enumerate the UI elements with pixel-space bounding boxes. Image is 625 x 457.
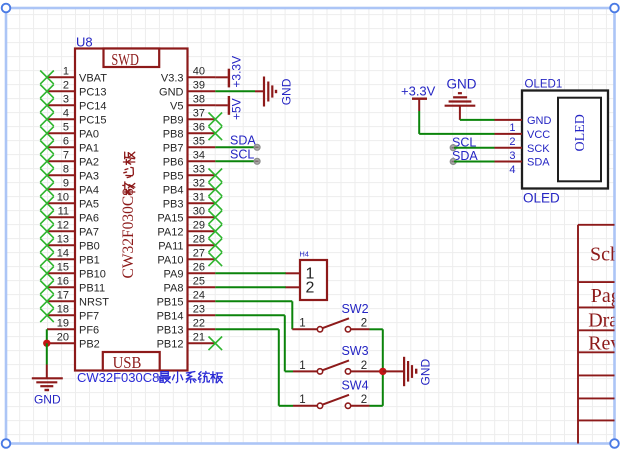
svg-text:7: 7 bbox=[63, 150, 69, 162]
svg-text:PB5: PB5 bbox=[163, 170, 184, 182]
svg-text:4: 4 bbox=[63, 108, 69, 120]
svg-text:CW32F030C8: CW32F030C8 bbox=[120, 188, 137, 279]
U8 pin 9 (PA4) bbox=[40, 178, 99, 197]
wire U8 pin25 PA8 to H4 pin2 bbox=[215, 286, 286, 288]
U8 pin 3 (PC14) bbox=[40, 94, 106, 113]
U8 pin 18 (PF7) bbox=[40, 304, 99, 323]
OLED1 pin 1 (GND) bbox=[495, 115, 552, 134]
svg-text:PB12: PB12 bbox=[157, 338, 184, 350]
svg-text:SDA: SDA bbox=[230, 134, 256, 148]
OLED1 pin 2 (VCC) bbox=[495, 129, 551, 148]
svg-text:PB14: PB14 bbox=[157, 310, 184, 322]
svg-text:GND: GND bbox=[447, 76, 477, 91]
switch SW4 bbox=[293, 379, 370, 409]
U8 pin 13 (PB0) bbox=[40, 234, 100, 253]
svg-text:PA7: PA7 bbox=[79, 226, 99, 238]
U8 vertical name CW32F030C8核心板 bbox=[120, 188, 137, 279]
U8 pin 34 (PB6) bbox=[163, 150, 216, 169]
svg-text:GND: GND bbox=[418, 359, 432, 386]
U8 pin 28 (PA11) bbox=[158, 234, 222, 253]
svg-text:PB11: PB11 bbox=[79, 282, 105, 294]
U8 pin 4 (PC15) bbox=[40, 108, 106, 127]
svg-text:14: 14 bbox=[57, 248, 69, 260]
svg-text:19: 19 bbox=[57, 318, 69, 330]
U8 pin 30 (PA15) bbox=[157, 206, 222, 225]
svg-text:1: 1 bbox=[63, 66, 69, 78]
svg-text:4: 4 bbox=[509, 164, 515, 176]
svg-text:5: 5 bbox=[63, 122, 69, 134]
wire +3.3V to OLED pin2 bbox=[419, 111, 494, 134]
U8 pin 16 (PB11) bbox=[40, 276, 105, 295]
svg-text:2: 2 bbox=[306, 279, 315, 296]
ground GND bottom left bbox=[32, 365, 63, 407]
svg-text:8: 8 bbox=[63, 164, 69, 176]
svg-text:40: 40 bbox=[193, 66, 205, 78]
U8 pin 39 (GND) bbox=[159, 80, 215, 99]
ground GND above OLED bbox=[445, 76, 477, 120]
U8 pin 17 (NRST) bbox=[40, 290, 109, 309]
svg-text:2: 2 bbox=[63, 80, 69, 92]
svg-text:PC13: PC13 bbox=[79, 86, 107, 98]
connector H4 bbox=[286, 249, 327, 300]
wire U8 pin26 PA9 to H4 pin1 bbox=[215, 272, 286, 274]
label CW32F030C8最小系统板 bbox=[77, 370, 222, 385]
svg-text:OLED: OLED bbox=[523, 190, 560, 205]
svg-text:39: 39 bbox=[193, 80, 205, 92]
U8 pin 5 (PA0) bbox=[40, 122, 99, 141]
svg-text:PB13: PB13 bbox=[157, 324, 184, 336]
svg-text:17: 17 bbox=[57, 290, 69, 302]
svg-text:PA3: PA3 bbox=[79, 170, 99, 182]
U8 pin 21 (PB12) bbox=[157, 332, 223, 351]
svg-text:24: 24 bbox=[193, 290, 205, 302]
wire GND to OLED pin1 bbox=[460, 119, 495, 121]
wire U8 pin24 PB15 to SW2 bbox=[215, 301, 292, 329]
svg-text:PB6: PB6 bbox=[163, 156, 184, 168]
svg-text:PA4: PA4 bbox=[79, 184, 99, 196]
U8 pin 31 (PB3) bbox=[163, 192, 222, 211]
ground GND at U8 pin 39 bbox=[215, 77, 293, 107]
svg-text:33: 33 bbox=[193, 164, 205, 176]
svg-text:GND: GND bbox=[159, 86, 184, 98]
svg-text:PF7: PF7 bbox=[79, 310, 99, 322]
svg-text:31: 31 bbox=[193, 192, 205, 204]
svg-text:PA5: PA5 bbox=[79, 198, 99, 210]
node SDA (port at OLED SDA) bbox=[450, 149, 494, 164]
svg-text:15: 15 bbox=[57, 262, 69, 274]
svg-text:2: 2 bbox=[361, 360, 367, 372]
U8 pin 23 (PB14) bbox=[157, 304, 216, 323]
junction at switch ground bus bbox=[379, 368, 386, 375]
svg-text:PA15: PA15 bbox=[157, 212, 183, 224]
svg-text:28: 28 bbox=[193, 234, 205, 246]
svg-text:SW2: SW2 bbox=[341, 302, 368, 316]
svg-text:9: 9 bbox=[63, 178, 69, 190]
svg-text:+3.3V: +3.3V bbox=[230, 56, 244, 88]
U8 pin 40 (V3.3) bbox=[161, 66, 215, 85]
svg-text:PB7: PB7 bbox=[163, 142, 184, 154]
svg-text:12: 12 bbox=[57, 220, 69, 232]
OLED1 pin 3 (SCK) bbox=[495, 143, 551, 162]
node SCL (port at OLED SCK) bbox=[450, 135, 494, 150]
svg-text:NRST: NRST bbox=[79, 296, 109, 308]
svg-text:PA8: PA8 bbox=[164, 282, 184, 294]
svg-text:V3.3: V3.3 bbox=[161, 72, 184, 84]
U8 pin 29 (PA12) bbox=[157, 220, 222, 239]
wire U8 pin22 PB13 to SW4 bbox=[215, 329, 293, 406]
svg-text:PB8: PB8 bbox=[163, 128, 184, 140]
U8 pin 14 (PB1) bbox=[40, 248, 100, 267]
USB box bbox=[103, 352, 160, 372]
ground GND at switches bbox=[383, 357, 433, 386]
U8 pin 15 (PB10) bbox=[40, 262, 106, 281]
U8 pin 6 (PA1) bbox=[40, 136, 99, 155]
svg-text:SW3: SW3 bbox=[341, 344, 368, 358]
svg-text:PB1: PB1 bbox=[79, 254, 100, 266]
svg-text:H4: H4 bbox=[299, 249, 309, 258]
svg-text:1: 1 bbox=[299, 360, 305, 372]
svg-text:GND: GND bbox=[34, 393, 61, 407]
wire SW2 to ground bus bbox=[370, 329, 383, 371]
svg-text:PB3: PB3 bbox=[163, 198, 184, 210]
svg-text:38: 38 bbox=[193, 94, 205, 106]
svg-text:3: 3 bbox=[63, 94, 69, 106]
svg-text:PA12: PA12 bbox=[157, 226, 183, 238]
U8 pin 11 (PA6) bbox=[40, 206, 99, 225]
svg-text:2: 2 bbox=[361, 318, 367, 330]
U8 pin 35 (PB7) bbox=[163, 136, 216, 155]
display module OLED1 bbox=[495, 79, 609, 206]
switch SW3 bbox=[293, 344, 370, 374]
power +3.3V at OLED VCC bbox=[401, 84, 436, 111]
wire bus down to SW4 bbox=[370, 371, 383, 405]
svg-text:SCL: SCL bbox=[230, 148, 254, 162]
junction at U8 pin20 PB2 bbox=[43, 340, 50, 347]
svg-text:SCK: SCK bbox=[527, 143, 550, 155]
U8 pin 8 (PA3) bbox=[40, 164, 99, 183]
svg-text:3: 3 bbox=[509, 150, 515, 162]
svg-text:10: 10 bbox=[57, 192, 69, 204]
svg-text:1: 1 bbox=[299, 318, 305, 330]
svg-text:PF6: PF6 bbox=[79, 324, 99, 336]
wire U8 pin19 PF6 down to junction bbox=[46, 329, 48, 343]
svg-text:30: 30 bbox=[193, 206, 205, 218]
svg-text:16: 16 bbox=[57, 276, 69, 288]
U8 pin 36 (PB8) bbox=[163, 122, 222, 141]
svg-text:PA0: PA0 bbox=[79, 128, 99, 140]
chip U8 body bbox=[75, 49, 188, 371]
svg-text:29: 29 bbox=[193, 220, 205, 232]
svg-text:25: 25 bbox=[193, 276, 205, 288]
svg-text:OLED: OLED bbox=[573, 114, 588, 151]
svg-text:11: 11 bbox=[58, 206, 69, 218]
svg-text:27: 27 bbox=[193, 248, 205, 260]
svg-text:18: 18 bbox=[57, 304, 69, 316]
svg-text:21: 21 bbox=[193, 332, 205, 344]
U8 pin 1 (VBAT) bbox=[40, 66, 107, 85]
svg-text:37: 37 bbox=[193, 108, 205, 120]
svg-text:1: 1 bbox=[509, 122, 515, 134]
svg-text:35: 35 bbox=[193, 136, 205, 148]
svg-text:13: 13 bbox=[57, 234, 69, 246]
wire junction down to ground bbox=[46, 343, 48, 364]
svg-text:1: 1 bbox=[299, 394, 305, 406]
svg-text:PA6: PA6 bbox=[79, 212, 99, 224]
svg-text:PB2: PB2 bbox=[79, 338, 100, 350]
power +3.3V at U8 pin 40 bbox=[215, 56, 243, 88]
svg-text:PA2: PA2 bbox=[79, 156, 99, 168]
U8 pin 2 (PC13) bbox=[40, 80, 106, 99]
U8 pin 33 (PB5) bbox=[163, 164, 222, 183]
svg-text:VBAT: VBAT bbox=[79, 72, 107, 84]
U8 pin 12 (PA7) bbox=[40, 220, 99, 239]
svg-text:PC14: PC14 bbox=[79, 100, 107, 112]
node SCL (port at U8 pin 34 / PB6) bbox=[215, 148, 260, 165]
svg-text:PA9: PA9 bbox=[164, 268, 184, 280]
svg-text:36: 36 bbox=[193, 122, 205, 134]
OLED1 pin 4 (SDA) bbox=[495, 157, 551, 176]
svg-text:U8: U8 bbox=[76, 35, 93, 50]
svg-text:2: 2 bbox=[509, 136, 515, 148]
U8 pin 10 (PA5) bbox=[40, 192, 99, 211]
svg-text:VCC: VCC bbox=[527, 129, 550, 141]
svg-text:34: 34 bbox=[193, 150, 205, 162]
svg-text:SW4: SW4 bbox=[341, 379, 368, 393]
svg-text:PB10: PB10 bbox=[79, 268, 106, 280]
wire SW3 to junction bbox=[370, 370, 383, 372]
svg-text:22: 22 bbox=[193, 318, 205, 330]
svg-text:SWD: SWD bbox=[111, 50, 138, 69]
U8 pin 22 (PB13) bbox=[157, 318, 216, 337]
svg-text:20: 20 bbox=[57, 332, 69, 344]
svg-text:V5: V5 bbox=[170, 100, 183, 112]
svg-text:2: 2 bbox=[361, 394, 367, 406]
svg-text:32: 32 bbox=[193, 178, 205, 190]
svg-text:PA1: PA1 bbox=[79, 142, 99, 154]
U8 pin 32 (PB4) bbox=[163, 178, 222, 197]
title block bbox=[578, 225, 621, 444]
U8 pin 20 (PB2) bbox=[47, 332, 100, 351]
svg-text:PB15: PB15 bbox=[157, 296, 184, 308]
svg-text:CW32F030C8: CW32F030C8 bbox=[77, 370, 159, 385]
svg-text:PB4: PB4 bbox=[163, 184, 184, 196]
svg-text:23: 23 bbox=[193, 304, 205, 316]
U8 pin 24 (PB15) bbox=[157, 290, 216, 309]
svg-text:PA10: PA10 bbox=[157, 254, 183, 266]
svg-text:OLED1: OLED1 bbox=[525, 79, 563, 91]
svg-text:PB0: PB0 bbox=[79, 240, 100, 252]
switch SW2 bbox=[292, 302, 369, 332]
SWD box bbox=[104, 49, 160, 70]
svg-text:PA11: PA11 bbox=[158, 240, 183, 252]
U8 pin 38 (V5) bbox=[170, 94, 215, 113]
U8 pin 27 (PA10) bbox=[157, 248, 222, 267]
svg-text:PC15: PC15 bbox=[79, 114, 107, 126]
svg-text:GND: GND bbox=[279, 78, 293, 105]
svg-text:Dra: Dra bbox=[588, 310, 618, 332]
svg-text:GND: GND bbox=[527, 115, 552, 127]
U8 pin 26 (PA9) bbox=[164, 262, 216, 281]
U8 pin 25 (PA8) bbox=[164, 276, 216, 295]
U8 pin 19 (PF6) bbox=[47, 318, 99, 337]
node SDA (port at U8 pin 35 / PB7) bbox=[215, 134, 260, 151]
svg-text:26: 26 bbox=[193, 262, 205, 274]
svg-text:+3.3V: +3.3V bbox=[401, 84, 436, 99]
U8 pin 37 (PB9) bbox=[163, 108, 222, 127]
svg-text:PB9: PB9 bbox=[163, 114, 184, 126]
svg-text:+5V: +5V bbox=[230, 98, 244, 120]
svg-text:6: 6 bbox=[63, 136, 69, 148]
power +5V at U8 pin 38 bbox=[215, 96, 243, 120]
U8 pin 7 (PA2) bbox=[40, 150, 99, 169]
wire U8 pin23 PB14 to SW3 bbox=[215, 315, 293, 371]
svg-text:SDA: SDA bbox=[527, 157, 550, 169]
